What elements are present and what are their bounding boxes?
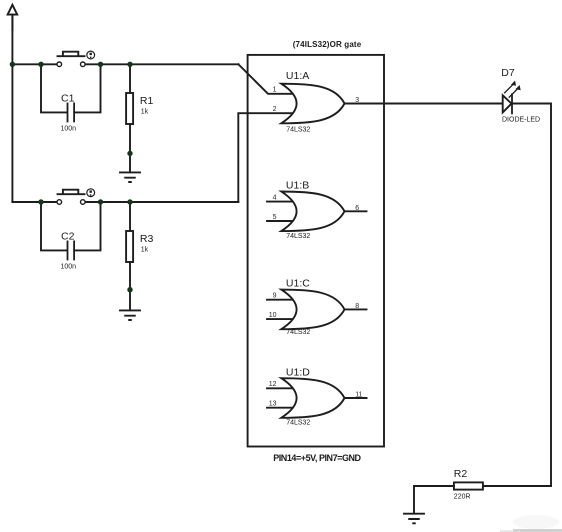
pushbutton SW2 [57, 189, 95, 205]
svg-text:R3: R3 [140, 233, 154, 245]
node row1 C1 left [38, 62, 43, 67]
capacitor C2 loop wires [41, 202, 101, 250]
node row2 C2 right [98, 199, 103, 204]
svg-text:DIODE-LED: DIODE-LED [502, 117, 540, 124]
LED D7 [503, 81, 521, 114]
svg-text:100n: 100n [61, 126, 77, 133]
wire row1 diagonal to pin 1 [238, 64, 294, 94]
svg-text:2: 2 [273, 106, 277, 113]
svg-text:11: 11 [355, 392, 362, 399]
svg-text:74LS32: 74LS32 [286, 233, 310, 240]
capacitor C1 plates [68, 103, 75, 121]
svg-text:12: 12 [269, 381, 277, 388]
wire LED to right rail down to R2 [512, 104, 551, 487]
wire row 2 [12, 201, 238, 203]
svg-text:74LS32: 74LS32 [286, 127, 310, 134]
svg-text:4: 4 [273, 194, 277, 201]
svg-text:U1:A: U1:A [286, 70, 309, 82]
node R3 bottom [127, 287, 132, 292]
wire row 1 [12, 63, 238, 65]
node R1 bottom [127, 151, 132, 156]
svg-text:U1:B: U1:B [286, 180, 309, 192]
svg-text:8: 8 [355, 303, 359, 310]
or-gate U1:A [281, 84, 344, 124]
svg-text:74LS32: 74LS32 [286, 420, 310, 427]
pushbutton SW1 [57, 51, 95, 67]
power symbol arrow [8, 5, 18, 30]
svg-text:D7: D7 [501, 67, 515, 79]
capacitor C1 loop wires [41, 64, 101, 112]
svg-text:1k: 1k [141, 247, 149, 254]
wire left rail [11, 15, 13, 202]
svg-text:C1: C1 [61, 93, 75, 105]
svg-text:3: 3 [355, 97, 359, 104]
svg-text:13: 13 [269, 401, 277, 408]
resistor R1 [129, 64, 131, 93]
watermark smear bottom right [500, 515, 562, 532]
node row1 left rail [10, 62, 15, 67]
node row2 C2 left [38, 199, 43, 204]
svg-text:(74ILS32)OR gate: (74ILS32)OR gate [293, 40, 362, 49]
node row1 C1 right [98, 62, 103, 67]
svg-text:220R: 220R [454, 493, 471, 500]
svg-text:5: 5 [273, 214, 277, 221]
node row2 R3 top [127, 199, 132, 204]
svg-text:10: 10 [269, 312, 277, 319]
or-gate U1:D [267, 378, 367, 418]
resistor R2 [483, 485, 551, 487]
svg-text:1k: 1k [141, 109, 149, 116]
svg-text:74LS32: 74LS32 [286, 329, 310, 336]
or-gate U1:C [267, 290, 367, 330]
ground (R3) [120, 310, 140, 320]
svg-text:PIN14=+5V, PIN7=GND: PIN14=+5V, PIN7=GND [273, 453, 361, 463]
svg-text:9: 9 [273, 293, 277, 300]
svg-text:R2: R2 [454, 468, 468, 480]
node row1 R1 top [127, 62, 132, 67]
wire pin 2 to row 2 [238, 113, 294, 202]
capacitor C2 plates [68, 241, 75, 259]
svg-text:100n: 100n [61, 264, 77, 271]
resistor R3 [129, 202, 131, 231]
svg-text:6: 6 [355, 205, 359, 212]
svg-text:U1:C: U1:C [286, 278, 310, 290]
ground (R2) [404, 514, 424, 524]
ground (R1) [120, 172, 140, 182]
IC box U1 [248, 55, 384, 447]
svg-text:1: 1 [273, 87, 277, 94]
svg-text:R1: R1 [140, 95, 154, 107]
svg-text:U1:D: U1:D [286, 367, 310, 379]
svg-text:C2: C2 [61, 231, 75, 243]
wire gate A output to LED [345, 103, 503, 105]
or-gate U1:B [267, 192, 367, 232]
